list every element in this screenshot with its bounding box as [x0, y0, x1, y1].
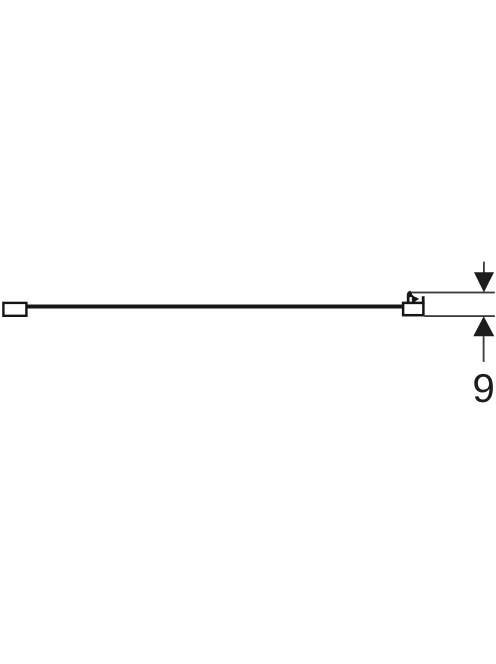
- dimension line bottom: [425, 315, 495, 317]
- arrow tail top: [483, 262, 485, 274]
- clip retaining loop and lip: [407, 291, 419, 303]
- clip body box: [403, 303, 423, 315]
- arrow up: [473, 316, 494, 336]
- clip right wall extension: [422, 296, 425, 304]
- arrow tail bottom: [483, 336, 485, 362]
- profile bar: [27, 305, 404, 309]
- dimension line top: [411, 292, 495, 294]
- arrow down: [474, 272, 494, 292]
- dimension label 9: [474, 374, 493, 403]
- left end cap: [3, 303, 26, 316]
